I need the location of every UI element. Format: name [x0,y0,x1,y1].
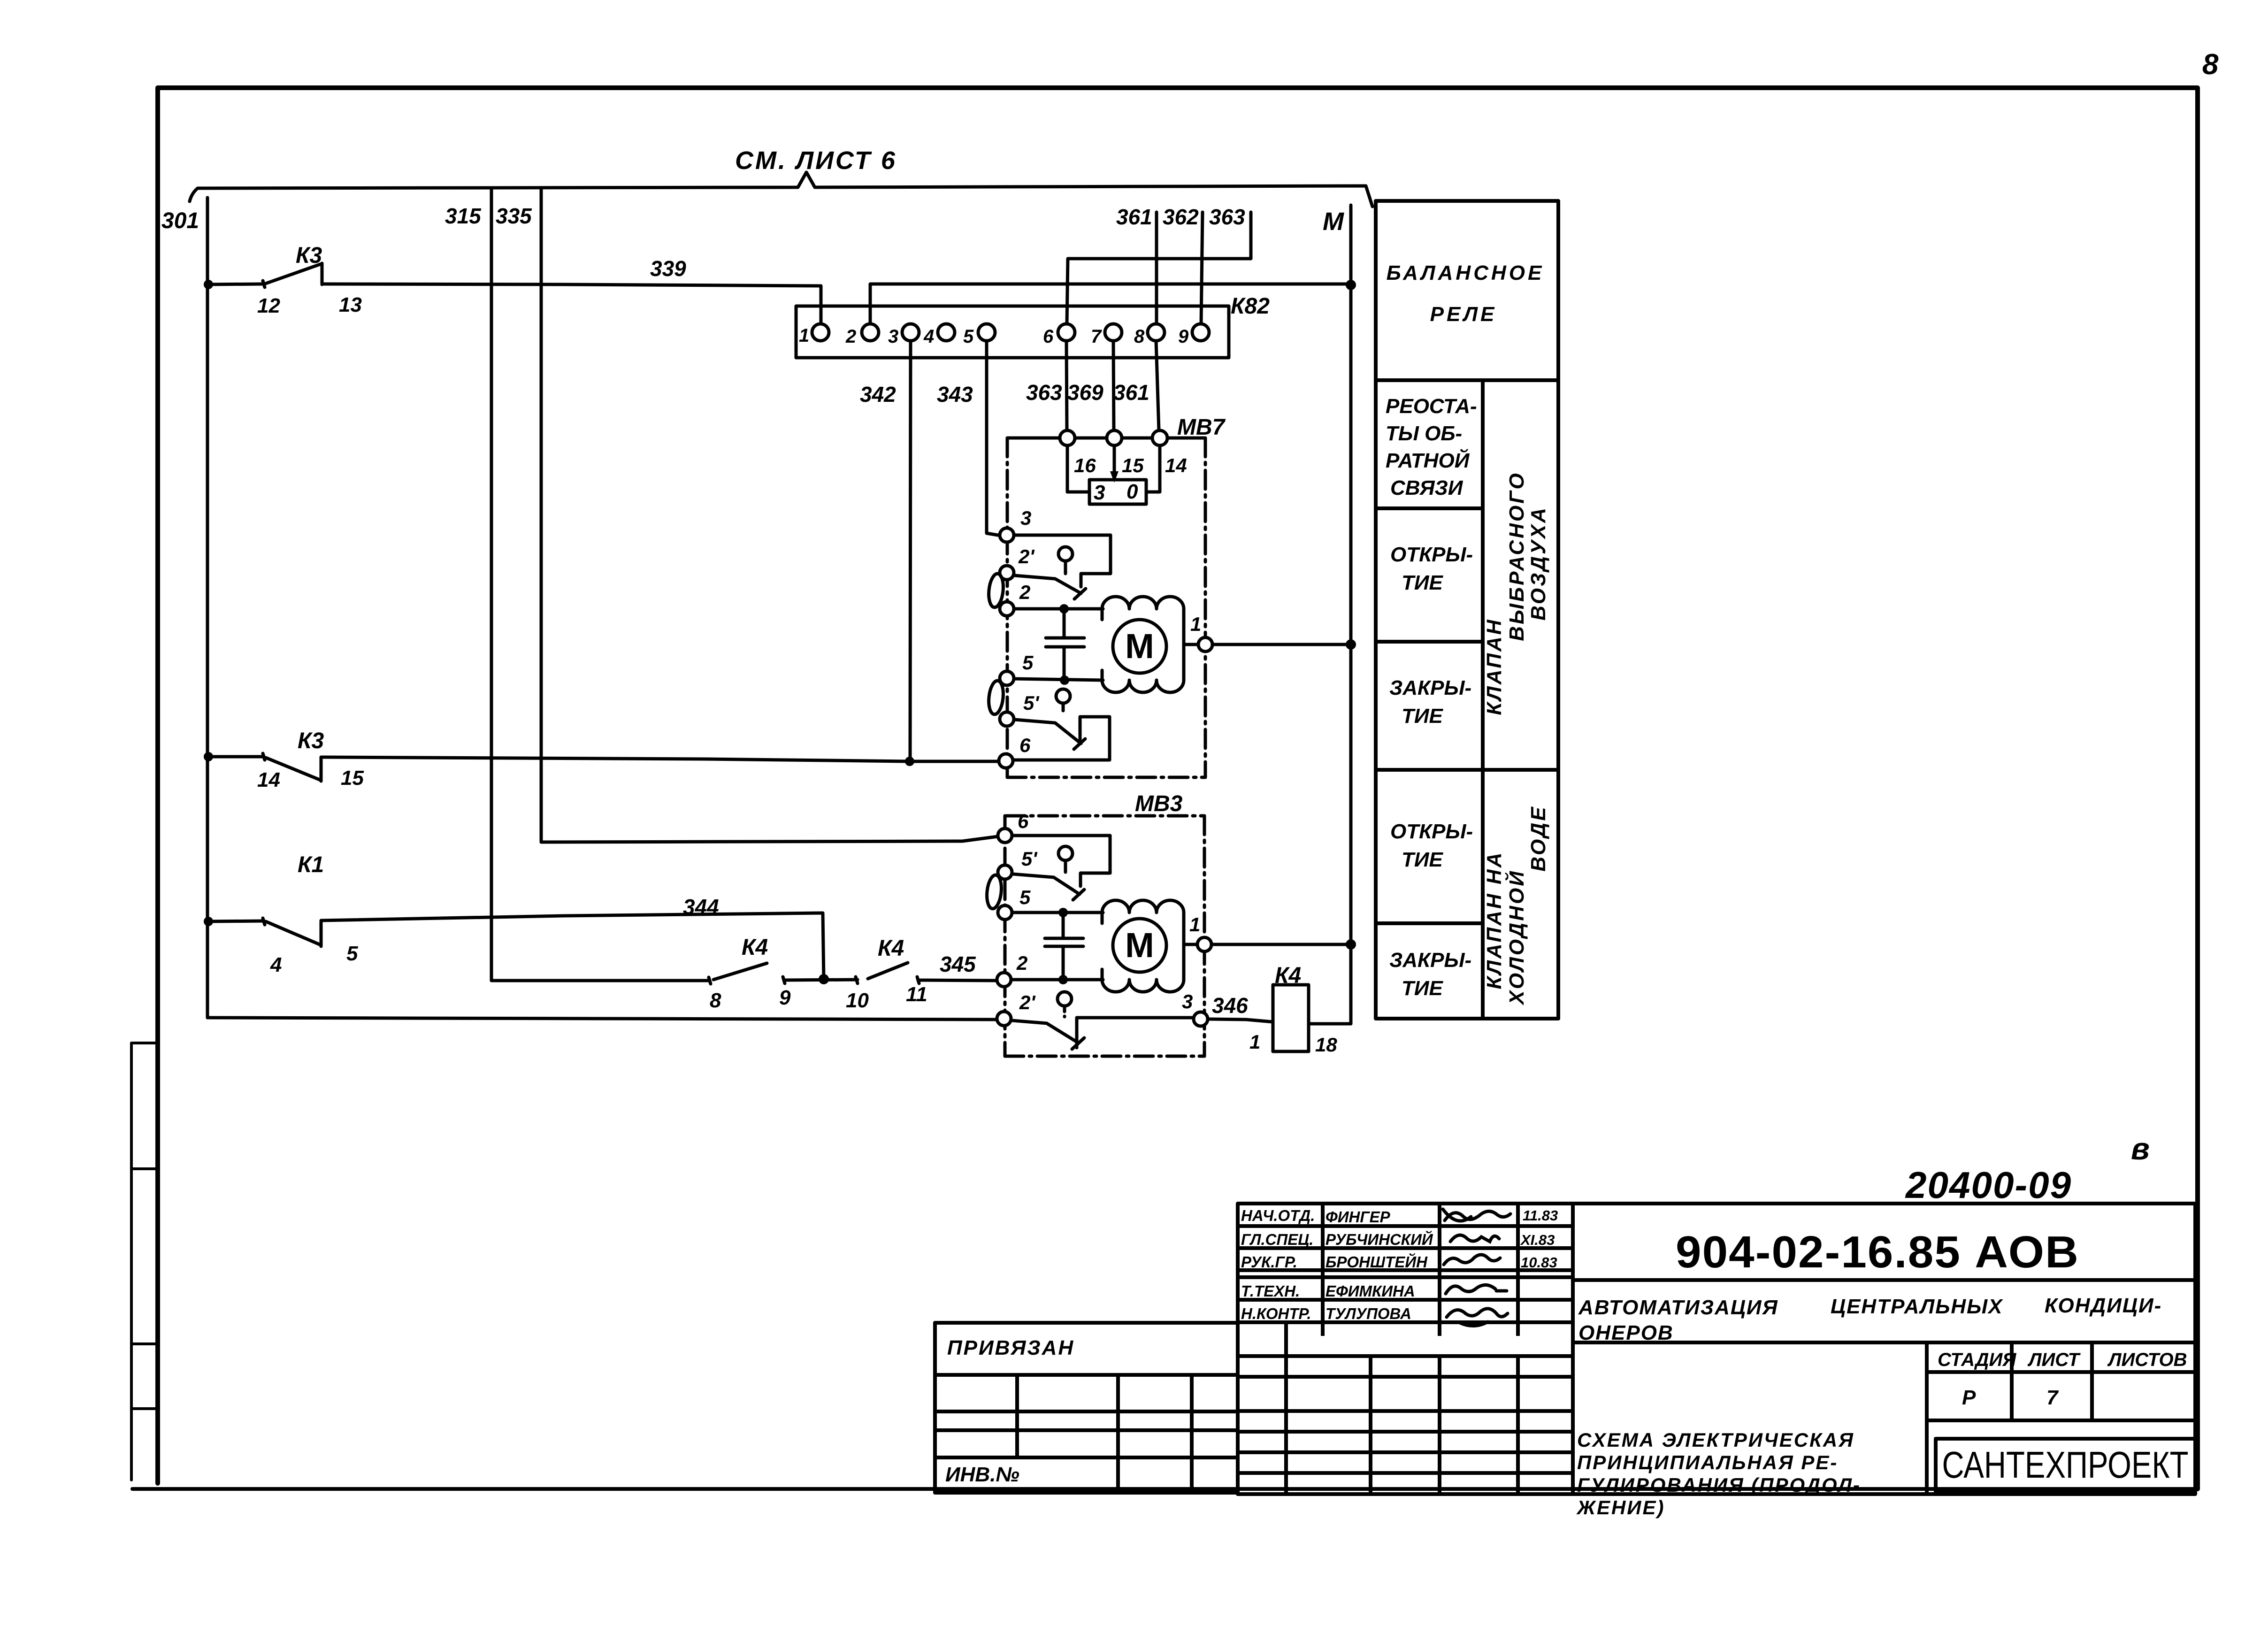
MV7 contact 2' [1000,566,1014,580]
svg-text:3: 3 [888,326,898,347]
wire 362 top to terminal 9 [1201,212,1203,324]
MV3 blade 5' [1013,874,1084,900]
svg-text:14: 14 [1165,454,1187,476]
wire 339 [322,284,821,323]
svg-text:342: 342 [860,382,896,406]
wire MV7 terminal 1 to M line [1212,643,1350,646]
svg-text:ТИЕ: ТИЕ [1402,848,1444,871]
svg-text:6: 6 [1019,734,1031,756]
MV7 enclosure right edge (chain line) [1204,438,1207,777]
legend table frame [1376,201,1558,1019]
wire contact 5 to motor [1014,679,1103,680]
stage/sheet box [1927,1342,2195,1494]
svg-text:ОТКРЫ-: ОТКРЫ- [1390,820,1473,843]
wire 16 to rheostat [1067,445,1089,492]
legend text close 2 [1389,949,1471,1000]
wire 363 top to terminal 6 [1067,212,1251,324]
legend divider rheostats/open [1376,506,1483,510]
svg-text:ХОЛОДНОЙ: ХОЛОДНОЙ [1504,869,1528,1006]
svg-text:345: 345 [940,952,976,976]
svg-text:СВЯЗИ: СВЯЗИ [1390,476,1463,499]
wire row B from bus to contact K3 (14-15) [207,755,263,759]
junction dot cap top MV7 [1059,604,1069,614]
svg-text:ЗАКРЫ-: ЗАКРЫ- [1389,676,1471,699]
lower-left column dividers [1286,1322,1518,1494]
svg-text:9: 9 [779,986,791,1009]
svg-text:МВ7: МВ7 [1177,415,1226,440]
main vertical divider [1571,1204,1575,1494]
relay coil K4 [1273,985,1309,1051]
privyazan row lines [935,1375,1238,1457]
legend divider full width mid [1376,768,1558,772]
svg-text:2: 2 [845,326,856,347]
svg-text:РУК.ГР.: РУК.ГР. [1241,1253,1297,1271]
svg-text:12: 12 [257,294,280,317]
MV7 contact 5' [1000,712,1014,726]
MV3 motor circle M [1113,919,1166,972]
svg-text:16: 16 [1074,454,1096,476]
svg-text:К1: К1 [298,852,324,877]
left margin fold strip [131,1043,158,1480]
reference bracket CM.LIST 6 [190,172,1372,207]
svg-text:361: 361 [1116,205,1152,229]
MV3 contact 2' [997,1012,1011,1026]
svg-text:5': 5' [1023,692,1040,714]
terminal 9 [1192,324,1209,341]
line under project name [1573,1341,2195,1344]
junction dot MV7 motor wire / M line [1346,639,1356,650]
svg-text:СХЕМА ЭЛЕКТРИЧЕСКАЯ: СХЕМА ЭЛЕКТРИЧЕСКАЯ [1577,1429,1854,1451]
terminal 8 [1148,324,1165,341]
legend text close 1 [1389,676,1471,728]
svg-text:8: 8 [1134,326,1145,347]
legend vertical text cold water valve [1483,805,1550,1006]
MV7 enclosure top edge [1008,437,1205,440]
svg-text:ИНВ.№: ИНВ.№ [945,1463,1019,1486]
capacitor C MV3 [1045,913,1083,980]
terminal 2 [862,324,879,341]
junction dot bus/row C [204,917,213,926]
svg-text:10.83: 10.83 [1521,1254,1557,1271]
svg-text:ОНЕРОВ: ОНЕРОВ [1578,1321,1674,1344]
svg-text:РЕОСТА-: РЕОСТА- [1386,395,1477,418]
svg-text:ЛИСТ: ЛИСТ [2027,1350,2081,1370]
svg-text:ФИНГЕР: ФИНГЕР [1326,1208,1391,1226]
mechanical link 5-5' [987,680,1004,715]
MV7 contact 2 [1000,602,1014,616]
svg-text:ВЫБРАСНОГО: ВЫБРАСНОГО [1505,471,1528,641]
svg-text:369: 369 [1067,380,1103,405]
svg-text:0: 0 [1126,480,1138,503]
MV3 contact 3 circle [1194,1012,1208,1026]
svg-text:М: М [1125,627,1154,666]
terminal 5 [978,324,995,341]
svg-text:ВОДЕ: ВОДЕ [1527,805,1550,871]
mechanical link 2'-2 [987,573,1004,608]
contact K4 (8-9) [709,963,767,984]
svg-text:15: 15 [341,767,364,790]
svg-text:СТАДИЯ: СТАДИЯ [1938,1350,2016,1370]
santehproekt box [1936,1439,2195,1492]
MV7 blade 5' [1015,720,1085,749]
mechanical link 5'-5 MV3 [985,874,1003,910]
wire 315 vertical [491,188,709,981]
MV3 enclosure top edge (chain line) [1006,814,1204,818]
capacitor C MV7 [1046,609,1084,680]
svg-text:18: 18 [1315,1034,1337,1056]
signature table column dividers [1323,1204,1518,1336]
MV3 contact 6 [998,828,1012,843]
MV7 contact 6 [999,754,1013,768]
svg-text:ТЫ ОБ-: ТЫ ОБ- [1386,422,1462,445]
title block outer frame [1238,1204,2195,1494]
legend vertical text exhaust air valve [1483,471,1550,715]
wire MV3 terminal 1 to M line [1211,943,1350,946]
svg-text:363: 363 [1026,380,1062,405]
MV3 fixed hook from 6 [1012,836,1110,886]
wire M vertical [1310,205,1351,1024]
svg-text:2: 2 [1016,952,1027,974]
svg-text:363: 363 [1209,205,1245,229]
wire row D segment 9 to 10 [783,977,858,983]
svg-text:20400-09: 20400-09 [1905,1164,2072,1206]
signature Bronstein [1444,1255,1500,1265]
svg-text:362: 362 [1163,205,1199,229]
svg-text:РУБЧИНСКИЙ: РУБЧИНСКИЙ [1326,1230,1433,1248]
svg-text:ЛИСТОВ: ЛИСТОВ [2107,1350,2187,1370]
svg-text:10: 10 [846,989,869,1012]
wire row C from bus to contact K1 [207,921,263,921]
contact K1 (4-5) [263,918,321,946]
svg-text:904-02-16.85 АОВ: 904-02-16.85 АОВ [1676,1227,2079,1277]
svg-text:ТИЕ: ТИЕ [1402,571,1444,594]
svg-text:2': 2' [1018,545,1035,568]
legend text balance relay [1387,261,1545,326]
wire M horizontal from terminal 2 [870,284,1350,324]
MV3 enclosure right edge (chain line) [1203,816,1206,1056]
svg-text:5: 5 [963,326,974,347]
svg-text:5: 5 [1019,886,1031,908]
privyazan column dividers [1017,1375,1192,1493]
junction dot cap top MV3 [1058,908,1068,917]
svg-text:7: 7 [2046,1386,2059,1409]
legend divider open/close [1376,640,1483,644]
svg-text:ЕФИМКИНА: ЕФИМКИНА [1326,1282,1415,1300]
svg-text:11.83: 11.83 [1523,1207,1558,1224]
MV7 motor circle M [1113,620,1166,673]
MV3 contact 5' [998,865,1012,879]
svg-text:К4: К4 [1275,963,1301,988]
MV7 fixed contact circle top [1058,547,1073,561]
wire motor to terminal 1 MV3 [1184,943,1197,946]
privyazan box [935,1323,1238,1493]
svg-text:М: М [1125,926,1154,965]
svg-text:1: 1 [799,325,809,346]
svg-text:8: 8 [710,989,721,1012]
wire 344 [321,913,824,979]
wire 15 wiper arrow [1113,445,1116,475]
wire terminal 7 to rheostat 15 [1113,341,1114,430]
svg-text:6: 6 [1043,326,1054,347]
contact K3 (14-15) [263,753,321,781]
wire contact 2 to motor [1014,607,1103,611]
svg-text:К82: К82 [1231,294,1270,319]
junction dot wire 342 / row B [905,757,914,766]
svg-text:К3: К3 [296,243,322,268]
MV7 rheostat terminal 14 [1152,430,1167,445]
wire 342 from terminal 3 [910,341,911,760]
legend text open 2 [1390,820,1473,871]
svg-text:КЛАПАН: КЛАПАН [1483,618,1506,715]
signature Rubchinsky [1450,1235,1499,1242]
svg-text:7: 7 [1091,326,1102,347]
svg-text:К3: К3 [298,729,324,753]
wire 343 from terminal 5 to MV7 contact 3 [987,341,998,535]
svg-text:НАЧ.ОТД.: НАЧ.ОТД. [1241,1207,1315,1224]
svg-text:8: 8 [2202,48,2219,81]
svg-text:4: 4 [270,953,282,976]
MV7 rheostat terminal 15 [1107,430,1122,445]
terminal 6 [1058,324,1075,341]
bus 301 vertical wire [206,198,209,1018]
svg-text:БАЛАНСНОЕ: БАЛАНСНОЕ [1387,261,1545,284]
junction dot cap bottom MV3 [1058,975,1068,984]
svg-text:ПРИВЯЗАН: ПРИВЯЗАН [947,1336,1074,1359]
svg-text:АВТОМАТИЗАЦИЯ: АВТОМАТИЗАЦИЯ [1578,1296,1778,1319]
terminal numbers 1-9 [799,325,1189,347]
svg-text:344: 344 [683,895,719,919]
svg-text:ЦЕНТРАЛЬНЫХ: ЦЕНТРАЛЬНЫХ [1831,1295,2003,1318]
terminal 1 [812,324,829,341]
svg-text:15: 15 [1122,454,1144,476]
wire row E to MV3 contact 2' [207,1018,997,1020]
lower-left rows of title block [1238,1356,1573,1473]
junction dot cap bottom MV7 [1060,675,1069,685]
svg-text:3: 3 [1182,990,1193,1012]
svg-text:ЖЕНИЕ): ЖЕНИЕ) [1576,1496,1665,1519]
junction dot MV3 motor wire / M line [1346,939,1356,950]
svg-text:1: 1 [1190,613,1201,635]
svg-text:Р: Р [1962,1386,1976,1409]
svg-text:346: 346 [1212,993,1248,1018]
signature Efimkina [1446,1285,1507,1294]
junction dot M line / terminal2 wire [1346,280,1356,290]
legend vertical subdivider [1481,380,1485,1019]
svg-text:МВ3: МВ3 [1135,791,1183,816]
MV7 fixed hook from 3 [1014,535,1111,587]
svg-text:335: 335 [496,204,532,228]
svg-text:5: 5 [346,942,358,965]
wire row A from bus to contact K3 [207,284,263,284]
wiper arrowhead [1110,471,1119,483]
svg-text:ТИЕ: ТИЕ [1402,705,1444,728]
svg-text:М: М [1323,207,1344,236]
svg-text:ЗАКРЫ-: ЗАКРЫ- [1389,949,1471,972]
svg-text:6: 6 [1018,810,1029,832]
signature table row lines [1238,1226,1573,1322]
MV7 fixed contact circle bottom [1056,689,1070,703]
line under document number [1573,1278,2195,1282]
MV7 enclosure bottom edge (chain line) [1007,776,1205,779]
svg-text:ВОЗДУХА: ВОЗДУХА [1527,506,1550,621]
svg-text:ОТКРЫ-: ОТКРЫ- [1390,543,1473,566]
svg-text:343: 343 [937,382,973,406]
svg-text:301: 301 [161,208,199,233]
svg-text:КОНДИЦИ-: КОНДИЦИ- [2045,1294,2162,1317]
svg-text:14: 14 [257,768,280,791]
svg-text:ГЛ.СПЕЦ.: ГЛ.СПЕЦ. [1241,1231,1313,1248]
wire row B to MV7 contact 6 [321,757,999,761]
wire 345 to MV3 contact 2 [917,977,997,983]
terminal 7 [1105,324,1122,341]
MV7 fixed hook from 6 [1014,717,1110,760]
svg-text:339: 339 [650,256,686,281]
legend text rheostats [1386,395,1477,499]
svg-text:361: 361 [1113,380,1149,405]
sheet title lines [1576,1429,1861,1519]
wire 361 top to terminal 8 [1155,212,1158,324]
contact K4 (10-11) [868,963,908,979]
wire 335 vertical [541,188,998,842]
svg-text:ТУЛУПОВА: ТУЛУПОВА [1326,1305,1411,1322]
wire motor to terminal 1 [1184,643,1198,646]
MV3 enclosure left edge (chain line) [1004,816,1007,1056]
signature squiggles [1443,1209,1510,1326]
svg-text:РАТНОЙ: РАТНОЙ [1386,448,1470,472]
svg-text:ГУЛИРОВАНИЯ (ПРОДОЛ-: ГУЛИРОВАНИЯ (ПРОДОЛ- [1577,1474,1861,1496]
MV7 contact 5 [1000,671,1014,685]
svg-text:КЛАПАН НА: КЛАПАН НА [1483,851,1506,989]
svg-text:СМ. ЛИСТ 6: СМ. ЛИСТ 6 [735,146,897,175]
junction dot wire 344 / row D [819,974,829,984]
MV7 rheostat terminal 16 [1060,430,1075,445]
MV3 motor windings [1102,900,1184,913]
svg-text:РЕЛЕ: РЕЛЕ [1430,303,1497,326]
svg-text:ТИЕ: ТИЕ [1402,977,1444,1000]
terminal 3 [902,324,919,341]
svg-text:2: 2 [1019,581,1030,603]
wire contact 2 to motor MV3 [1011,978,1103,982]
svg-text:К4: К4 [742,935,768,960]
MV3 contact 2 [997,973,1011,987]
MV7 motor windings [1102,597,1184,609]
svg-text:Н.КОНТР.: Н.КОНТР. [1241,1305,1311,1322]
wire contact 5 to motor MV3 [1012,911,1103,914]
contact K3 (12-13) [263,263,322,287]
svg-text:3: 3 [1020,507,1031,529]
svg-text:5: 5 [1022,652,1034,674]
legend divider under balance relay [1376,378,1558,382]
wire terminal 6 to rheostat 16 [1066,341,1067,430]
signature Tulupova [1447,1309,1508,1326]
svg-text:ПРИНЦИПИАЛЬНАЯ РЕ-: ПРИНЦИПИАЛЬНАЯ РЕ- [1577,1451,1838,1473]
MV3 fixed hook to contact 3 [1077,1018,1194,1048]
signature Finger [1445,1211,1510,1220]
wire 346 [1208,1019,1273,1022]
legend divider open/close lower [1376,921,1483,925]
svg-text:3: 3 [1094,481,1105,504]
page frame [132,88,2198,1489]
MV7 terminal 1 circle [1198,637,1212,652]
svg-text:Т.ТЕХН.: Т.ТЕХН. [1241,1282,1300,1300]
MV7 feedback rheostat box [1089,480,1146,504]
svg-text:БРОНШТЕЙН: БРОНШТЕЙН [1326,1253,1428,1271]
MV3 fixed contact circle top [1058,846,1073,860]
svg-text:САНТЕХПРОЕКТ: САНТЕХПРОЕКТ [1942,1444,2189,1486]
MV7 contact 3 [1000,528,1014,542]
svg-text:13: 13 [339,293,362,316]
svg-text:4: 4 [923,326,934,347]
svg-text:в: в [2131,1131,2150,1166]
signature dates [1520,1207,1558,1271]
MV3 terminal 1 circle [1197,937,1211,951]
svg-text:5': 5' [1021,848,1038,870]
MV7 enclosure left edge (chain line) [1006,438,1009,777]
signature rows text [1241,1207,1433,1322]
svg-text:XI.83: XI.83 [1520,1232,1555,1248]
svg-text:315: 315 [445,204,482,228]
MV3 enclosure bottom edge (chain line) [1005,1055,1204,1058]
wire terminal 8 to rheostat 14 [1156,341,1159,430]
svg-text:2': 2' [1019,991,1036,1013]
junction dot bus/row A [204,280,213,289]
MV3 contact 5 [998,905,1012,920]
legend text open 1 [1390,543,1473,594]
MV3 blade 2' [1012,1020,1084,1049]
svg-text:1: 1 [1189,913,1200,936]
svg-text:11: 11 [906,983,927,1006]
svg-text:1: 1 [1249,1031,1260,1053]
wire 14 to rheostat [1146,445,1160,492]
svg-text:К4: К4 [878,936,904,961]
MV7 blade 2' [1015,575,1086,599]
junction dot bus/row B [204,752,213,761]
svg-text:9: 9 [1178,326,1189,347]
MV3 fixed contact circle bottom [1057,992,1072,1006]
terminal block K82 [796,306,1229,358]
terminal 4 [938,324,955,341]
